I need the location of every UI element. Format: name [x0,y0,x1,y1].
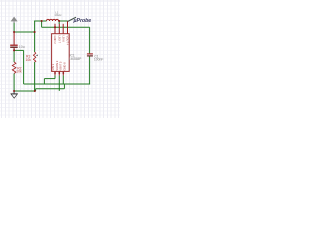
svg-text:GND 2: GND 2 [53,36,57,45]
svg-text:VIN 1: VIN 1 [51,63,55,70]
svg-text:10u: 10u [19,45,25,49]
svg-text:10k: 10k [16,69,22,73]
svg-text:VOUT 4: VOUT 4 [66,36,70,46]
svg-text:100nF: 100nF [94,58,104,62]
svg-text:µProbe: µProbe [73,18,92,24]
svg-text:LM358P: LM358P [69,57,82,61]
svg-text:LBI 6: LBI 6 [61,36,65,43]
svg-text:SHDN 3: SHDN 3 [55,60,59,70]
svg-text:LBO 7: LBO 7 [57,36,61,44]
svg-text:10k: 10k [26,58,32,62]
svg-text:10uH: 10uH [54,13,61,17]
svg-text:VBAT 5: VBAT 5 [58,61,62,71]
svg-text:GND 8: GND 8 [62,62,66,71]
